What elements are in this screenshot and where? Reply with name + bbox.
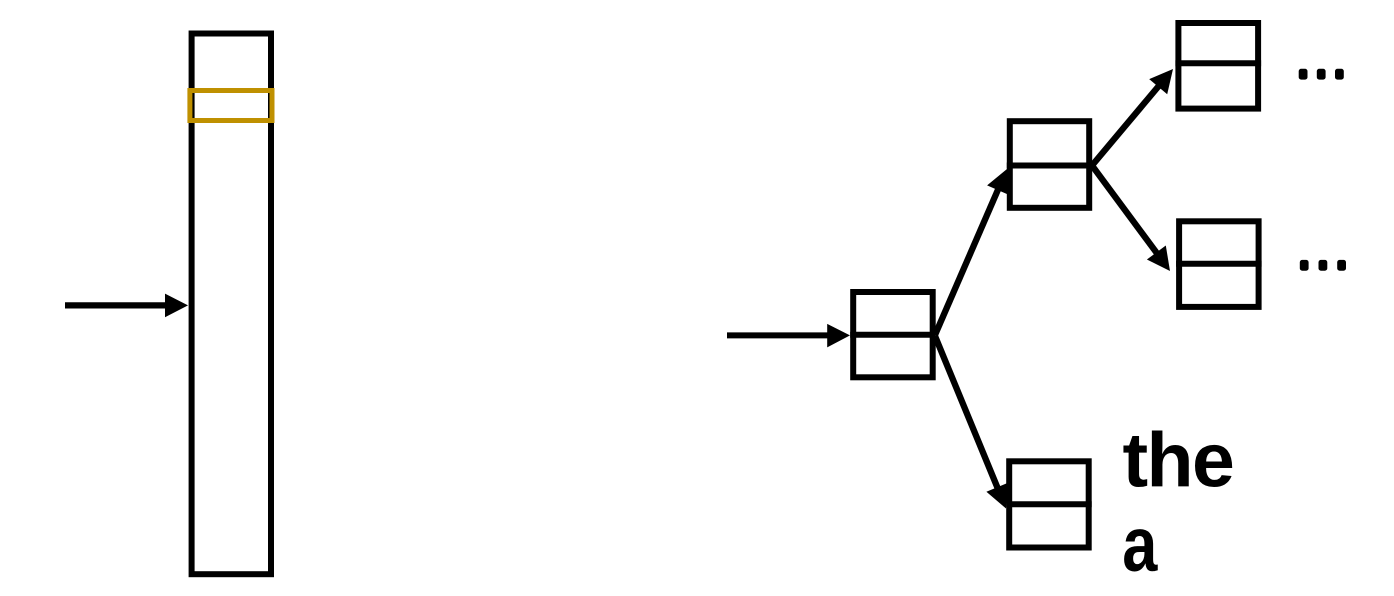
arrow upper-middle to top-right node (1092, 69, 1173, 166)
array column (192, 34, 271, 575)
arrow upper-middle to mid-right node (1092, 166, 1170, 272)
ellipsis after top-right node (1299, 69, 1344, 80)
top-right node box (1175, 23, 1261, 109)
mid-right node box (1176, 221, 1262, 307)
svg-text:a: a (1122, 501, 1158, 587)
ellipsis after mid-right node (1300, 260, 1346, 271)
svg-text:the: the (1123, 417, 1234, 503)
arrow root to bottom node (935, 336, 1008, 509)
highlighted array cell (190, 91, 272, 121)
arrow root to upper-middle node (935, 169, 1009, 335)
arrow into root node (727, 324, 850, 348)
bottom node box (1006, 461, 1091, 547)
upper-middle node box (1007, 121, 1092, 208)
root node box (850, 292, 936, 377)
arrow into array (65, 294, 188, 318)
